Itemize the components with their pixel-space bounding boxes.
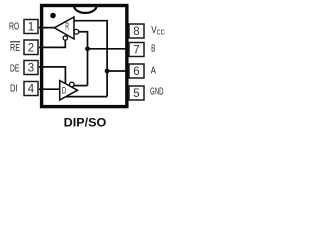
pin 5 box — [129, 86, 144, 100]
wire A-net: receiver input A right then down — [74, 21, 107, 97]
wire A-net: to pin 6 — [107, 70, 130, 72]
svg-text:RE: RE — [10, 43, 20, 54]
svg-text:2: 2 — [28, 42, 34, 54]
svg-text:DE: DE — [10, 64, 20, 75]
svg-text:B: B — [151, 44, 155, 55]
svg-text:3: 3 — [28, 63, 34, 75]
wire DI: pin 4 to driver input — [39, 88, 60, 90]
svg-text:DI: DI — [10, 84, 18, 95]
IC body U1 (DIP/SO package outline) — [42, 6, 127, 107]
pin 4 box — [24, 82, 38, 96]
node A junction dot — [105, 69, 110, 74]
pin 3 box — [24, 61, 38, 75]
svg-text:6: 6 — [133, 66, 139, 78]
label RE overline — [10, 41, 20, 43]
svg-text:7: 7 — [133, 45, 139, 57]
wire B-net: to pin 7 — [88, 48, 131, 50]
svg-text:1: 1 — [28, 22, 34, 34]
wire B-net: receiver bubble right then down — [79, 32, 88, 86]
pin 2 box — [24, 40, 38, 55]
svg-text:CC: CC — [157, 29, 165, 36]
pin-1 indicator dot — [50, 13, 56, 19]
svg-text:A: A — [151, 65, 156, 76]
driver inverting output bubble — [70, 82, 75, 87]
wire RE: pin 2 to receiver enable bubble — [39, 40, 65, 47]
svg-text:8: 8 — [133, 26, 139, 38]
receiver U1-R triangle — [54, 17, 74, 39]
svg-text:5: 5 — [133, 88, 139, 100]
pin-1 notch — [74, 6, 97, 13]
svg-text:D: D — [62, 86, 66, 97]
svg-text:4: 4 — [28, 84, 35, 96]
pin 6 box — [129, 64, 144, 78]
pin 8 box — [129, 24, 144, 38]
wire DE: pin 3 to driver enable — [39, 67, 65, 84]
pin 1 box — [24, 20, 38, 34]
receiver enable bubble — [63, 36, 67, 40]
wire B-net: to driver inverting output bubble — [74, 85, 88, 87]
wire A-net: bottom run to driver output — [64, 96, 107, 98]
svg-text:GND: GND — [150, 87, 164, 98]
receiver input B bubble — [74, 29, 79, 34]
svg-text:R: R — [65, 21, 69, 32]
svg-text:RO: RO — [9, 21, 19, 32]
node B junction dot — [85, 46, 90, 51]
pin 7 box — [129, 43, 144, 57]
wire RO: pin 1 to receiver output — [39, 27, 56, 29]
driver U1-D triangle — [60, 81, 78, 101]
svg-text:DIP/SO: DIP/SO — [64, 116, 107, 128]
